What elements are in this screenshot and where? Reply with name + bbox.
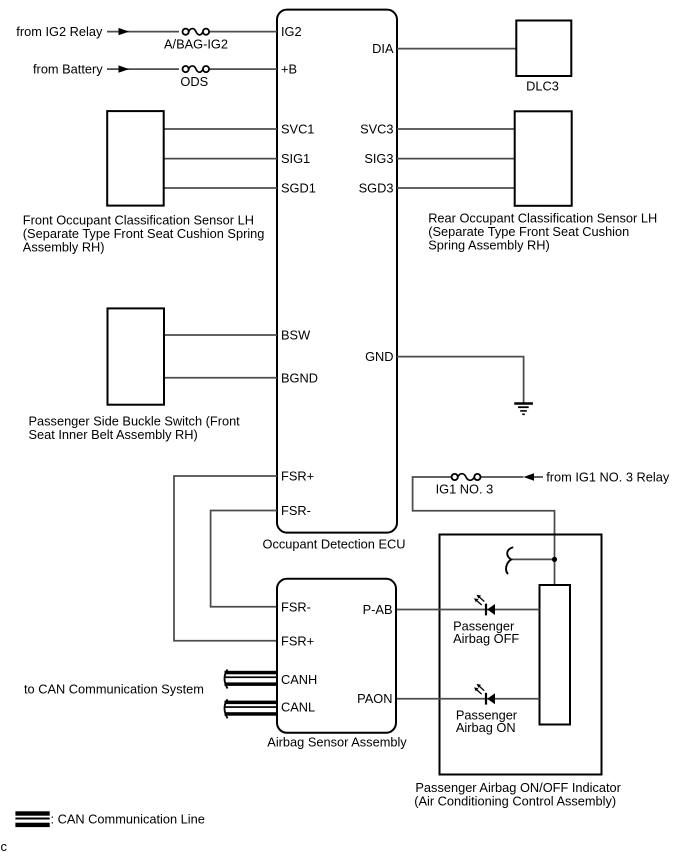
svg-text:SIG1: SIG1 xyxy=(281,151,310,166)
wire BSW xyxy=(164,334,278,336)
svg-text:: CAN Communication Line: : CAN Communication Line xyxy=(51,812,205,827)
ECU U2 body: Airbag Sensor Assembly xyxy=(277,579,396,733)
resistor R1: indicator driver block xyxy=(540,585,571,725)
wire: pin P-AB to driver block xyxy=(397,609,540,611)
wire: IG1 feed routing into indicator xyxy=(413,477,555,585)
arrow: battery feed direction xyxy=(119,65,130,72)
label: Front Occupant Classification Sensor LH xyxy=(23,213,265,255)
fuse IG1 NO. 3 xyxy=(452,474,481,481)
label: Rear Occupant Classification Sensor LH xyxy=(428,211,657,253)
wire: ECU FSR- to Airbag Sensor FSR- xyxy=(211,511,277,607)
ECU U1 body: Occupant Detection ECU xyxy=(277,10,397,533)
svg-text:Assembly RH): Assembly RH) xyxy=(23,240,105,255)
svg-text:Airbag Sensor Assembly: Airbag Sensor Assembly xyxy=(267,735,407,750)
wire: CANH bus stub (CAN communication line) xyxy=(225,670,278,689)
svg-text:GND: GND xyxy=(365,349,393,364)
label: Passenger Side Buckle Switch xyxy=(29,414,241,443)
fuse A/BAG-IG2 xyxy=(179,26,209,37)
wire: fuse IG1 NO. 3 to arrow xyxy=(481,476,524,478)
wire: CANL bus stub (CAN communication line) xyxy=(225,699,278,718)
wire SIG1 xyxy=(164,158,277,160)
svg-text:Occupant Detection ECU: Occupant Detection ECU xyxy=(263,537,406,552)
svg-text:FSR-: FSR- xyxy=(281,503,311,518)
svg-text:Airbag OFF: Airbag OFF xyxy=(453,631,519,646)
svg-text:BGND: BGND xyxy=(281,370,318,385)
connector: squiggle (harness break) xyxy=(506,548,512,574)
arrow: IG1 feed direction xyxy=(524,473,535,480)
switch SW1 body: Passenger Side Buckle Switch xyxy=(108,308,165,404)
svg-text:CANH: CANH xyxy=(281,672,317,687)
sensor S2 body: Rear Occupant Classification Sensor LH xyxy=(515,111,572,206)
svg-text:P-AB: P-AB xyxy=(363,602,393,617)
label: Passenger Airbag ON/OFF Indicator xyxy=(414,780,621,809)
svg-text:FSR+: FSR+ xyxy=(281,469,314,484)
svg-text:IG1 NO. 3: IG1 NO. 3 xyxy=(436,482,494,497)
svg-text:SVC1: SVC1 xyxy=(281,122,314,137)
wire SVC1 xyxy=(164,128,277,130)
svg-text:PAON: PAON xyxy=(357,691,392,706)
svg-text:(Air Conditioning Control Asse: (Air Conditioning Control Assembly) xyxy=(414,794,616,809)
svg-text:SGD1: SGD1 xyxy=(281,181,316,196)
svg-text:SGD3: SGD3 xyxy=(359,181,394,196)
label: Passenger Airbag OFF xyxy=(453,618,519,646)
svg-text:DIA: DIA xyxy=(372,41,394,56)
wire SGD1 xyxy=(164,187,277,189)
connector J1: DLC3 xyxy=(516,21,571,77)
label: Passenger Airbag ON xyxy=(456,707,518,735)
svg-text:IG2: IG2 xyxy=(281,24,302,39)
wire SIG3 xyxy=(397,158,515,160)
wire: from Battery to pin +B xyxy=(107,68,277,70)
enclosure: Passenger Airbag ON/OFF Indicator box xyxy=(440,535,602,775)
wire: pin GND to ground xyxy=(397,357,524,403)
svg-text:DLC3: DLC3 xyxy=(526,79,559,94)
svg-text:from IG2 Relay: from IG2 Relay xyxy=(16,24,103,39)
svg-text:FSR-: FSR- xyxy=(281,599,311,614)
wire BGND xyxy=(164,377,278,379)
svg-text:to CAN Communication System: to CAN Communication System xyxy=(24,682,204,697)
svg-text:ODS: ODS xyxy=(180,74,208,89)
fuse ODS xyxy=(179,64,209,75)
ground xyxy=(514,404,533,415)
svg-text:SIG3: SIG3 xyxy=(364,151,393,166)
svg-text:from IG1 NO. 3 Relay: from IG1 NO. 3 Relay xyxy=(546,469,670,484)
svg-text:SVC3: SVC3 xyxy=(360,122,393,137)
wire SVC3 xyxy=(397,128,515,130)
svg-text:from Battery: from Battery xyxy=(33,62,103,77)
LED D1: Passenger Airbag OFF xyxy=(474,595,495,616)
node: junction dot on IG1 feed xyxy=(552,557,557,562)
svg-text:c: c xyxy=(1,839,8,852)
wire: arrow to source label xyxy=(534,476,543,478)
wire: pin DIA to DLC3 xyxy=(397,48,516,50)
wire: from IG2 Relay to pin IG2 xyxy=(107,31,277,33)
wire: ECU FSR+ to Airbag Sensor FSR+ xyxy=(174,476,277,641)
wire: connector squiggle tap to junction xyxy=(511,558,555,560)
arrow: IG2 feed direction xyxy=(119,28,130,35)
wire: pin PAON to driver block xyxy=(397,698,540,700)
svg-text:Airbag ON: Airbag ON xyxy=(456,720,516,735)
LED D2: Passenger Airbag ON xyxy=(474,684,495,705)
svg-text:Spring Assembly RH): Spring Assembly RH) xyxy=(428,238,550,253)
wire SGD3 xyxy=(397,187,515,189)
svg-text:BSW: BSW xyxy=(281,328,311,343)
sensor S1 body: Front Occupant Classification Sensor LH xyxy=(107,111,164,206)
svg-text:FSR+: FSR+ xyxy=(281,633,314,648)
svg-text:Seat Inner Belt Assembly RH): Seat Inner Belt Assembly RH) xyxy=(29,427,198,442)
svg-text:CANL: CANL xyxy=(281,700,315,715)
svg-text:+B: +B xyxy=(281,62,297,77)
svg-text:A/BAG-IG2: A/BAG-IG2 xyxy=(164,36,228,51)
legend: CAN Communication Line sample bar xyxy=(15,811,49,827)
